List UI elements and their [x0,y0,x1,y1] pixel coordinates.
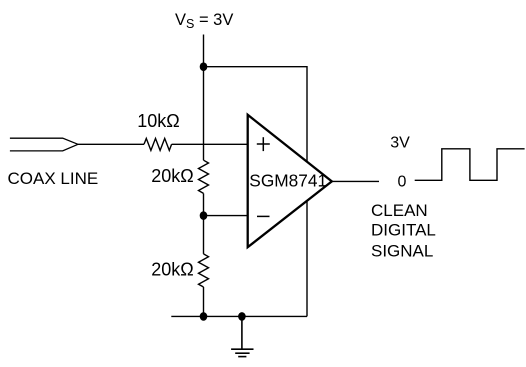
pin + (non-inverting input mark) [257,137,270,151]
resistor R1 10k [144,138,172,150]
pin - (inverting input mark) [257,215,270,217]
wire op-amp V- to ground rail [306,195,308,316]
svg-text:CLEAN: CLEAN [371,201,428,220]
node VS junction [200,62,208,71]
svg-text:COAX LINE: COAX LINE [8,169,99,188]
svg-text:20kΩ: 20kΩ [151,166,193,186]
node ground rail right [238,312,246,321]
wire divider top (VS node to R2) [203,67,205,161]
wire R3 to ground rail [203,287,205,316]
svg-text:SGM8741: SGM8741 [249,171,327,191]
resistor R2 20k [199,160,209,193]
svg-text:10kΩ: 10kΩ [137,111,179,131]
wire R1 to +input [172,143,248,145]
node ground rail left [200,312,208,321]
coax line connector [10,138,78,151]
svg-text:3V: 3V [390,135,410,152]
wire midpoint to -input [204,215,248,217]
op-amp U1 SGM8741 [248,115,332,247]
svg-text:SIGNAL: SIGNAL [371,242,433,261]
wire top rail to op-amp V+ [204,67,308,170]
wire VS vertical drop [203,35,205,67]
wire output [332,180,379,182]
svg-text:VS = 3V: VS = 3V [175,11,233,31]
wire ground rail [171,315,307,317]
resistor R3 20k [199,254,209,287]
svg-text:0: 0 [398,173,407,190]
waveform clean digital signal [415,149,525,181]
ground [231,316,253,356]
svg-text:DIGITAL: DIGITAL [371,221,436,240]
svg-text:20kΩ: 20kΩ [151,259,193,279]
wire coax to R1 [78,143,144,145]
node divider midpoint [200,211,208,220]
wire R2 to midpoint node [203,193,205,254]
